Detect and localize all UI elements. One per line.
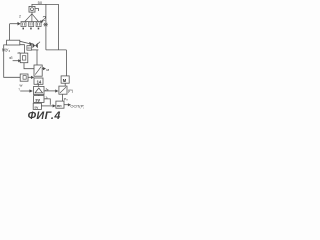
svg-text:м: м xyxy=(46,67,49,72)
svg-text:2: 2 xyxy=(41,16,46,23)
svg-text:50: 50 xyxy=(38,0,43,5)
svg-text:Jг: Jг xyxy=(45,95,48,100)
svg-text:Рп: Рп xyxy=(64,96,69,101)
svg-text:пн: пн xyxy=(57,104,62,108)
svg-text:2: 2 xyxy=(19,15,21,19)
svg-text:(Р): (Р) xyxy=(68,88,74,93)
svg-text:зу: зу xyxy=(35,98,40,103)
svg-text:зб: зб xyxy=(9,56,13,60)
svg-text:ФИГ.4: ФИГ.4 xyxy=(28,110,61,120)
svg-text:14: 14 xyxy=(37,79,42,84)
svg-text:МУ₂: МУ₂ xyxy=(2,47,10,52)
svg-text:w: w xyxy=(20,83,23,88)
svg-text:ОСП(Р): ОСП(Р) xyxy=(70,104,84,109)
svg-text:м: м xyxy=(63,78,67,84)
svg-text:ву: ву xyxy=(35,106,39,110)
svg-text:Jв: Jв xyxy=(45,86,49,91)
